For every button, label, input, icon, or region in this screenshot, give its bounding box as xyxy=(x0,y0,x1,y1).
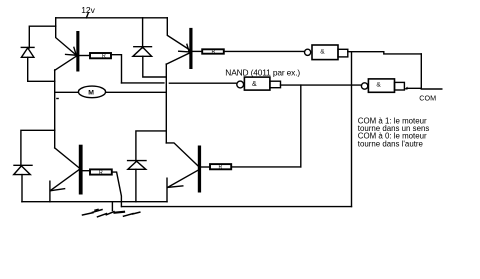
transistor Q1 bar (top-left) xyxy=(76,31,79,72)
wire Q4 collector xyxy=(166,143,198,166)
wire Q2 collector (rail drop) xyxy=(167,18,189,50)
NAND gate U1C output bubble xyxy=(361,83,367,89)
wire Q4 base xyxy=(201,166,210,168)
motor M xyxy=(78,86,105,98)
diode D2 (top-right flyback) xyxy=(133,47,152,57)
svg-text:&: & xyxy=(320,49,325,56)
wire R2 to NAND A output xyxy=(224,50,305,52)
NAND gate U1B output bubble xyxy=(237,81,244,88)
NAND gate U1B input pin box xyxy=(270,81,281,88)
wire D3 bottom lead xyxy=(21,175,23,202)
svg-text:&: & xyxy=(376,81,381,88)
Q3 emitter arrow tick xyxy=(51,189,65,191)
Q1 emitter arrow xyxy=(66,47,77,55)
wire Q3 base xyxy=(83,170,90,172)
wire U1B input to U1C output xyxy=(281,84,362,86)
U1C input arrow xyxy=(404,87,408,90)
wire right vertical (motor right node) xyxy=(165,64,167,143)
wire R1 to mid wire xyxy=(111,55,122,83)
Q4 emitter arrow tick xyxy=(168,186,183,187)
svg-text:R: R xyxy=(212,49,216,55)
svg-text:M: M xyxy=(88,89,94,96)
wire Q1 base xyxy=(79,55,90,57)
wire U1A input to COM (with step) xyxy=(348,52,422,54)
label COM xyxy=(419,94,436,103)
wire Q2 base xyxy=(193,50,203,52)
wire Q1 collector (rail to bar) xyxy=(56,18,77,55)
op... NAND gate U1A output bubble xyxy=(305,49,311,55)
transistor Q2 bar (top-right) xyxy=(189,28,192,69)
wire Q3 emitter diagonal xyxy=(50,170,79,191)
wire motor right xyxy=(106,91,167,93)
transistor Q3 bar (bottom-left) xyxy=(79,145,83,195)
ground hatches xyxy=(83,209,140,216)
wire R3 output slant down xyxy=(112,172,122,207)
wire Q4 emitter diagonal xyxy=(168,170,198,187)
wire Q3 collector diagonal xyxy=(55,148,79,168)
wire D1 branch from rail xyxy=(29,26,55,48)
NAND gate U1B body xyxy=(244,77,270,90)
label NAND (4011 par ex.) xyxy=(225,68,300,78)
wire to R4 xyxy=(231,166,301,168)
wire Q2 emitter diagonal xyxy=(166,53,189,64)
stray dot xyxy=(56,98,59,99)
note text block xyxy=(358,117,430,149)
svg-text:COM: COM xyxy=(419,94,436,103)
wire D1 bottom lead xyxy=(28,57,55,81)
wire D4 bottom lead xyxy=(135,169,137,201)
svg-text:R: R xyxy=(102,53,106,59)
diode D1 (top-left flyback) xyxy=(21,47,34,57)
wire D2 bottom lead xyxy=(143,56,167,77)
wire motor left xyxy=(55,91,79,93)
svg-text:NAND (4011 par ex.): NAND (4011 par ex.) xyxy=(225,68,300,78)
wire left vertical (motor left node) xyxy=(54,70,56,148)
wire long vertical to bottom line xyxy=(351,52,353,207)
NAND gate U1A body xyxy=(312,45,338,60)
wire bottom long line xyxy=(122,206,352,208)
resistor R2 xyxy=(202,49,224,55)
wire COM stub xyxy=(407,87,442,90)
NAND gate U1C body xyxy=(368,79,394,92)
svg-text:tourne dans l'autre: tourne dans l'autre xyxy=(358,139,424,148)
wire NAND B output to R1 (with hop gap) xyxy=(122,82,237,84)
wire D4 top branch xyxy=(136,131,166,161)
wire Q4 emitter vertical xyxy=(166,178,168,202)
wire Q1 emitter diagonal xyxy=(55,56,77,70)
transistor Q4 bar (bottom-right) xyxy=(198,146,201,193)
wire 12v label tick xyxy=(86,13,88,18)
svg-text:R: R xyxy=(219,165,223,171)
wire Q3 emitter vertical xyxy=(49,181,51,202)
svg-text:R: R xyxy=(99,170,103,176)
diode D3 (bottom-left flyback) xyxy=(14,165,32,174)
diode D4 (bottom-center flyback) xyxy=(128,161,146,170)
svg-text:&: & xyxy=(252,81,257,88)
resistor R1 xyxy=(90,53,111,59)
label 12v xyxy=(81,5,95,15)
ground stem xyxy=(111,202,113,211)
resistor R4 xyxy=(210,164,231,171)
wire D3 branch xyxy=(21,130,55,166)
wire COM vertical drop xyxy=(420,54,422,88)
NAND gate U1A input pin box xyxy=(338,49,348,57)
NAND gate U1C input pin box xyxy=(395,82,405,90)
resistor R3 xyxy=(90,169,112,176)
wire U1C output node down to R4 xyxy=(300,85,302,167)
wire D2 top lead xyxy=(142,18,144,48)
wire bottom emitter rail xyxy=(22,201,167,203)
Q2 emitter arrow xyxy=(179,44,189,52)
wire 12V top rail xyxy=(56,17,168,19)
